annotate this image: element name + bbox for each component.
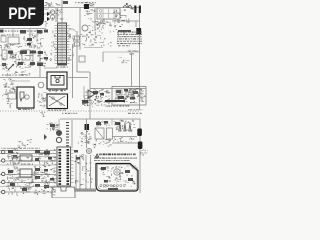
- svg-text:PDF: PDF: [8, 4, 36, 23]
